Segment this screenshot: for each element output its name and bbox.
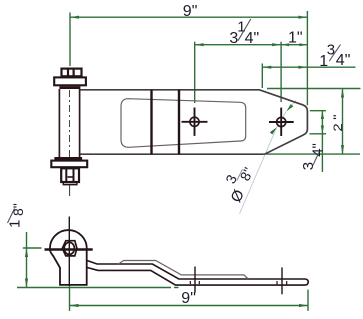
bolt bottom collar band [54, 157, 82, 160]
wire extension 1/8 top [23, 247, 42, 249]
node arrow leader upper [286, 104, 293, 111]
bolt top nut [62, 68, 82, 76]
node label 3/4 rotated [300, 143, 327, 170]
svg-text:1": 1" [288, 29, 303, 46]
bolt bottom washer [51, 161, 87, 168]
wire extension line hole2 x281.1 [280, 42, 282, 102]
wire extension line right x307.4 [306, 11, 308, 105]
svg-text:": " [331, 114, 344, 119]
mounting bar through boss [45, 248, 93, 251]
wire leader through circle [277, 111, 287, 127]
node arrow leader lower [270, 127, 277, 134]
wire extension line 3/4 bottom [310, 133, 327, 135]
hole 1 centerlines [182, 121, 208, 123]
wire dim 9 inch top dimension line [70, 16, 307, 18]
wire leader dia 3/8 upper segment [288, 100, 296, 109]
wire extension line taper x262.3 [261, 64, 263, 89]
wire extension bottom-right x308 [307, 290, 309, 311]
node slash of 1/8 label [8, 209, 15, 224]
emboss outline [121, 99, 246, 148]
barrel centerline dash-dot [69, 90, 71, 157]
wire dim 3/4 inch vertical dimension line [321, 111, 323, 172]
plate outline [80, 90, 307, 154]
node label 1 3/4 [319, 42, 350, 71]
wire dim 1/8 inch vertical [26, 232, 28, 288]
strap rib line side view [119, 261, 249, 280]
wire extension line hole1 x194.7 [194, 42, 196, 103]
hex nut face [62, 241, 77, 256]
node arrow right of 9" [298, 16, 307, 19]
bend line 1 [150, 90, 152, 154]
pin circle [64, 242, 74, 254]
hole 2 centerlines [269, 121, 294, 123]
hole 2 tick side view [281, 267, 283, 294]
svg-text:9": 9" [181, 290, 196, 307]
node slash of dia 3/8 label [237, 169, 243, 180]
svg-text:3: 3 [327, 42, 335, 59]
wire dim 2 inch vertical dimension line [342, 89, 344, 155]
wire dim 9 inch bottom dimension line [70, 305, 309, 307]
wire dim 1-3/4 inch dimension line [262, 66, 355, 68]
hole 2 hidden edges [276, 281, 278, 285]
wire dim 1 inch dimension line [281, 44, 307, 46]
node slash of 3/4 label [313, 152, 319, 165]
bolt top collar band [59, 86, 80, 89]
boss outline [50, 230, 87, 285]
boss vertical centerline [68, 217, 70, 287]
wire extension line 3/4 top [310, 110, 326, 112]
hole 1 tick side view [194, 267, 196, 293]
wire dim 3-1/4 inch dimension line [195, 44, 281, 46]
node label 2 inch rotated [331, 114, 344, 131]
wire extension line 2in bottom [266, 153, 360, 155]
bolt bottom nut [61, 168, 79, 185]
node label dia 3/8 rotated [216, 160, 259, 206]
bolt bottom centerline stub [69, 185, 71, 196]
node label 3 1/4 [229, 19, 259, 47]
svg-text:2: 2 [331, 123, 344, 131]
hole 2 circle [277, 117, 286, 126]
bolt top washer [54, 77, 86, 85]
svg-text:4": 4" [336, 52, 351, 69]
svg-text:4": 4" [245, 30, 260, 47]
barrel right wall [79, 89, 81, 157]
hole 1 circle [190, 117, 199, 126]
bend line 2 [178, 90, 180, 154]
node arrow left of 9" [70, 16, 79, 19]
wire leader dia 3/8 lower segment [240, 127, 277, 214]
wire extension line left x70 [69, 13, 71, 67]
node label 1/8 rotated [7, 203, 27, 228]
wire baseline extension bottom view [17, 287, 171, 289]
strap side view outline [87, 260, 309, 285]
hole 1 hidden edges [189, 281, 191, 284]
wire extension bottom-left x69.5 [69, 286, 71, 311]
wire extension line 2in top [267, 88, 361, 90]
svg-text:9": 9" [183, 3, 198, 20]
barrel left wall [58, 89, 60, 157]
